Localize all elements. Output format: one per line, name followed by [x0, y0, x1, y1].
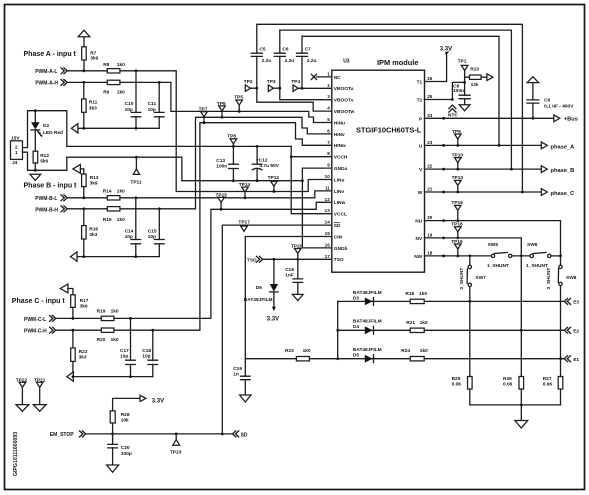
svg-text:LINv: LINv: [334, 189, 345, 195]
svg-text:10p: 10p: [125, 234, 133, 240]
svg-text:9: 9: [327, 163, 330, 168]
NTC annotation: [449, 105, 456, 112]
svg-text:3_SHUNT: 3_SHUNT: [546, 268, 552, 290]
junction R22/ground: [72, 375, 75, 378]
svg-text:D6: D6: [256, 285, 262, 291]
capacitor C8: [459, 95, 470, 99]
svg-text:R9: R9: [103, 89, 109, 95]
input chevron E3: [564, 298, 570, 304]
power arrow 15V phase C: [60, 284, 68, 293]
ground symbol J4: [30, 174, 41, 180]
LED D2: [31, 122, 40, 129]
wire R11: [83, 82, 85, 128]
svg-text:C19: C19: [233, 366, 242, 372]
wire PWM-A-H to HINu pin5: [67, 82, 332, 122]
svg-text:14: 14: [325, 220, 331, 225]
capacitor C7: [297, 53, 308, 56]
resistor R13: [82, 174, 87, 187]
capacitor C12: [256, 145, 259, 148]
svg-text:R14: R14: [103, 189, 112, 195]
svg-text:20: 20: [427, 215, 433, 220]
junction R16/ground: [82, 255, 85, 258]
svg-text:8: 8: [327, 151, 330, 156]
svg-text:R27: R27: [543, 376, 552, 382]
svg-text:E3: E3: [573, 300, 579, 306]
svg-text:Phase B - inpu t: Phase B - inpu t: [24, 182, 78, 189]
resistor R15: [107, 207, 120, 211]
svg-text:PWM-B-L: PWM-B-L: [35, 196, 57, 202]
svg-text:1n: 1n: [233, 371, 239, 377]
junction C18/PWM-C-H: [151, 329, 154, 332]
input chevron E1: [564, 356, 570, 362]
svg-text:1k0: 1k0: [117, 62, 125, 68]
junction C17/PWM-C-L: [129, 317, 132, 320]
svg-text:7: 7: [327, 140, 330, 145]
wire D2 stem: [34, 111, 36, 152]
capacitor C10: [135, 71, 137, 129]
wire P pin24 to +Bus: [425, 117, 554, 119]
svg-text:C7: C7: [305, 47, 311, 53]
diode D6: [273, 259, 275, 307]
ground arrow phase A: [71, 124, 78, 133]
wire CIN pin15: [245, 237, 331, 359]
resistor R24: [410, 357, 424, 361]
svg-text:3k3: 3k3: [79, 355, 87, 361]
svg-text:25: 25: [427, 94, 433, 99]
junction R26/E2: [520, 329, 523, 332]
input chevron E2: [564, 327, 570, 333]
svg-text:C18: C18: [142, 348, 151, 354]
wire EM_STOP to SD: [86, 433, 233, 435]
svg-text:VBOOTv: VBOOTv: [334, 98, 354, 104]
capacitor C9: [532, 83, 534, 119]
svg-text:BAT48JFILM: BAT48JFILM: [244, 297, 273, 303]
wire NW pin18 to SW5: [425, 255, 492, 257]
IPM module U3: [332, 70, 425, 272]
resistor R21: [410, 328, 424, 332]
svg-text:TP17: TP17: [238, 219, 250, 225]
wire R13 bottom: [83, 187, 85, 198]
capacitor C5: [251, 53, 262, 56]
svg-text:3k9: 3k9: [90, 56, 98, 62]
capacitor C20: [112, 434, 114, 465]
svg-text:VCCH: VCCH: [334, 155, 348, 161]
svg-text:R28: R28: [121, 412, 130, 418]
pin1 NC no-connect: [317, 76, 332, 78]
wire C5 bottom to VBOOTw pin4: [257, 56, 332, 111]
junction C15/PWM-B-H: [158, 207, 161, 210]
svg-text:TP12: TP12: [268, 175, 280, 181]
svg-text:NW: NW: [414, 254, 422, 260]
svg-text:100n: 100n: [216, 164, 227, 170]
svg-text:GIPG10111600093: GIPG10111600093: [13, 432, 19, 476]
svg-text:2.2u: 2.2u: [262, 58, 272, 64]
svg-text:4.7u 50V: 4.7u 50V: [259, 163, 279, 169]
svg-text:5k6: 5k6: [40, 159, 48, 165]
svg-text:3k9: 3k9: [90, 181, 98, 187]
svg-text:10k: 10k: [121, 418, 129, 424]
resistor R7: [82, 47, 87, 60]
svg-text:LED Red: LED Red: [43, 130, 63, 136]
svg-text:D4: D4: [353, 324, 359, 330]
svg-text:10p: 10p: [120, 354, 128, 360]
svg-text:24: 24: [427, 113, 433, 118]
svg-text:0.06: 0.06: [543, 382, 553, 388]
switch SW5: [491, 254, 494, 257]
svg-text:LINu: LINu: [334, 177, 345, 183]
diode D3: [365, 298, 373, 306]
wire PWM-B-H to HINv pin6: [67, 117, 332, 209]
ground arrow phase C: [67, 372, 74, 381]
svg-text:2: 2: [327, 83, 330, 88]
svg-text:HINv: HINv: [334, 132, 345, 138]
svg-text:5: 5: [327, 117, 330, 122]
output arrow R10: [487, 74, 493, 81]
svg-text:3k9: 3k9: [80, 303, 88, 309]
svg-text:C11: C11: [148, 101, 157, 107]
svg-text:Phase C - inpu t: Phase C - inpu t: [12, 298, 66, 305]
pin names left: [334, 75, 355, 263]
junction VCCH: [290, 155, 293, 158]
svg-text:1k0: 1k0: [111, 337, 119, 343]
capacitor C16: [297, 259, 299, 294]
power arrow 3.3V EM_STOP: [140, 395, 146, 401]
svg-text:12k: 12k: [471, 82, 479, 88]
svg-text:3.3V: 3.3V: [440, 47, 452, 53]
svg-text:NV: NV: [416, 236, 423, 242]
svg-text:21: 21: [427, 187, 433, 192]
ground symbol shunts: [520, 405, 522, 421]
svg-text:R18: R18: [405, 291, 414, 297]
svg-text:R8: R8: [103, 62, 109, 68]
svg-text:R17: R17: [80, 298, 89, 304]
svg-text:3: 3: [327, 94, 330, 99]
svg-text:0.06: 0.06: [503, 382, 513, 388]
svg-text:10p: 10p: [148, 107, 156, 113]
svg-text:VCCL: VCCL: [334, 212, 347, 218]
wire R7 bottom: [83, 47, 85, 71]
svg-text:2: 2: [15, 144, 18, 150]
power arrow C9: [527, 77, 539, 83]
svg-text:U: U: [419, 143, 423, 149]
pin numbers right: [427, 76, 433, 255]
svg-text:phase_C: phase_C: [551, 191, 575, 197]
svg-text:17: 17: [325, 254, 331, 259]
svg-text:R7: R7: [90, 50, 96, 56]
resistor R9: [107, 80, 120, 84]
svg-text:15: 15: [325, 231, 331, 236]
svg-text:TP23: TP23: [170, 449, 182, 455]
pin names right: [414, 80, 423, 260]
capacitor C18: [152, 330, 154, 376]
svg-text:Phase A - inpu t: Phase A - inpu t: [24, 51, 77, 58]
ground arrow phase B: [71, 252, 78, 261]
svg-text:R23: R23: [285, 348, 294, 354]
svg-text:U3: U3: [343, 59, 350, 65]
svg-text:C6: C6: [282, 47, 288, 53]
svg-text:D2: D2: [43, 123, 49, 129]
output chevron SD: [233, 431, 239, 437]
svg-text:R20: R20: [97, 337, 106, 343]
svg-text:GNDb: GNDb: [334, 246, 348, 252]
svg-text:SW5: SW5: [488, 242, 499, 248]
svg-text:phase_B: phase_B: [551, 168, 575, 174]
wire R7 top: [83, 37, 85, 47]
shunt resistor R26: [520, 256, 522, 405]
svg-text:E2: E2: [573, 329, 579, 335]
junction C16: [296, 258, 299, 261]
svg-text:0.06: 0.06: [452, 382, 462, 388]
svg-text:1k0: 1k0: [303, 348, 311, 354]
wire SW5 to SW6: [512, 255, 530, 257]
svg-text:1k0: 1k0: [117, 89, 125, 95]
svg-text:100n: 100n: [453, 88, 464, 94]
svg-text:PWM-C-H: PWM-C-H: [24, 329, 47, 335]
test point TP23: [175, 433, 178, 436]
junction R27/E1: [559, 357, 562, 360]
junction C14/PWM-B-L: [134, 196, 137, 199]
power arrow 3.3V below D6: [272, 307, 276, 311]
svg-text:16: 16: [325, 242, 331, 247]
svg-text:3k3: 3k3: [89, 232, 97, 238]
svg-text:C13: C13: [216, 158, 225, 164]
junction D6: [273, 258, 276, 261]
svg-text:1k0: 1k0: [117, 189, 125, 195]
svg-text:STGIF10CH60TS-L: STGIF10CH60TS-L: [356, 126, 422, 135]
wire R17 bottom: [72, 307, 74, 318]
svg-text:22: 22: [427, 164, 433, 169]
svg-text:PWM-B-H: PWM-B-H: [35, 208, 58, 214]
shunt resistor R27: [560, 359, 562, 405]
svg-text:TP11: TP11: [130, 179, 142, 185]
svg-text:1k0: 1k0: [111, 309, 119, 315]
svg-text:HINu: HINu: [334, 120, 345, 126]
wire R12 bottom: [34, 163, 36, 170]
svg-text:C9: C9: [544, 97, 550, 103]
capacitor C11: [158, 82, 160, 128]
svg-text:R22: R22: [79, 349, 88, 355]
svg-text:10: 10: [325, 174, 331, 179]
diode D5: [365, 355, 373, 363]
switch SW7: [469, 256, 471, 265]
wire phase A ground rail: [78, 127, 160, 129]
wire GND rail: [182, 180, 303, 182]
junction R11/ground: [82, 127, 85, 130]
resistor R14: [107, 196, 120, 200]
wire E3 row: [338, 300, 565, 302]
junction C9: [532, 117, 535, 120]
svg-text:LINw: LINw: [334, 200, 346, 206]
wire R16: [83, 209, 85, 257]
svg-text:TSO: TSO: [247, 258, 257, 264]
wire phase B ground rail: [77, 256, 159, 258]
wire C6 top to phase B bootstrap: [280, 30, 512, 169]
junction R22/PWM-C-H: [72, 329, 75, 332]
svg-text:PWM-A-L: PWM-A-L: [35, 69, 57, 75]
wire phase C ground rail: [73, 376, 153, 378]
svg-text:NU: NU: [415, 219, 422, 225]
svg-text:R15: R15: [103, 217, 112, 223]
output arrow +Bus: [554, 115, 560, 122]
svg-text:E1: E1: [573, 357, 579, 363]
anode bus CIN: [337, 301, 339, 358]
svg-text:10p: 10p: [148, 234, 156, 240]
svg-text:0,1 uF - 400V: 0,1 uF - 400V: [544, 104, 574, 110]
svg-text:1k0: 1k0: [117, 217, 125, 223]
svg-text:R21: R21: [406, 320, 415, 326]
svg-text:1_SHUNT: 1_SHUNT: [487, 263, 509, 269]
wire C7 bottom to VBOOTu pin2: [301, 56, 303, 88]
capacitor C15: [158, 209, 160, 257]
svg-text:C20: C20: [121, 445, 130, 451]
svg-text:VBOOTw: VBOOTw: [334, 109, 355, 115]
wire R17 top: [68, 289, 73, 295]
wire NU pin20 to SW8: [425, 221, 561, 265]
wire PWM-C-L to LINw pin12: [55, 202, 331, 318]
svg-text:D3: D3: [353, 295, 359, 301]
svg-text:10p: 10p: [125, 107, 133, 113]
junction C10/ground: [135, 127, 138, 130]
resistor R8: [107, 69, 120, 73]
resistor R19: [101, 316, 114, 320]
svg-text:TP1: TP1: [458, 59, 467, 65]
junction R11/PWM-A-H: [82, 81, 85, 84]
junction C11/PWM-A-H: [158, 81, 161, 84]
ground symbol C19: [240, 395, 251, 402]
resistor R10: [465, 76, 487, 78]
output arrow phase_A: [541, 142, 547, 149]
svg-text:26: 26: [427, 76, 433, 81]
svg-text:2.2u: 2.2u: [307, 58, 317, 64]
svg-text:PWM-C-L: PWM-C-L: [24, 317, 46, 323]
svg-text:10p: 10p: [142, 354, 150, 360]
svg-text:18: 18: [427, 250, 433, 255]
svg-text:3_SHUNT: 3_SHUNT: [459, 268, 465, 290]
wire J4 pin1 ground loop: [23, 152, 67, 170]
svg-text:19: 19: [427, 232, 433, 237]
svg-text:6: 6: [327, 128, 330, 133]
junction R28/EM_STOP: [111, 433, 114, 436]
wire TP1 to C8: [464, 71, 466, 96]
wire R22: [72, 330, 74, 376]
svg-text:VBOOTu: VBOOTu: [334, 86, 354, 92]
output arrow phase_B: [541, 166, 547, 173]
diode D4: [365, 326, 373, 334]
svg-text:R10: R10: [470, 66, 479, 72]
svg-text:330p: 330p: [121, 451, 132, 457]
junction R12 ground: [34, 169, 37, 172]
svg-text:BAT48JFILM: BAT48JFILM: [353, 290, 382, 296]
ground symbol C20: [107, 465, 119, 472]
svg-text:SW6: SW6: [527, 242, 538, 248]
svg-text:R13: R13: [90, 175, 99, 181]
svg-text:PWM-A-H: PWM-A-H: [35, 81, 58, 87]
wire PWM-C-H to HINw pin7: [55, 123, 331, 331]
svg-text:J4: J4: [12, 160, 18, 166]
svg-text:3.3V: 3.3V: [152, 398, 164, 404]
svg-text:BAT48JFILM: BAT48JFILM: [353, 347, 382, 353]
svg-text:R11: R11: [89, 100, 98, 106]
junction R17/PWM-C-L: [72, 317, 75, 320]
svg-text:R12: R12: [40, 153, 49, 159]
svg-text:SW8: SW8: [566, 275, 577, 281]
resistor R11: [82, 99, 87, 112]
svg-text:R19: R19: [97, 309, 106, 315]
capacitor C14: [135, 198, 137, 257]
resistor R23: [296, 357, 309, 361]
resistor R22: [71, 348, 76, 361]
svg-text:1: 1: [327, 71, 330, 76]
wire C7 top to phase A bootstrap: [302, 36, 499, 145]
shunt resistor R25: [469, 301, 471, 405]
wire GNDa pin9 to GNDb pin16: [302, 168, 331, 248]
switch SW6: [530, 254, 533, 257]
junction R16/PWM-B-H: [82, 207, 85, 210]
svg-text:23: 23: [427, 140, 433, 145]
svg-text:1nF: 1nF: [285, 273, 294, 279]
wire T1 pin26 to 3.3V: [425, 55, 447, 82]
junction T2 tap: [463, 81, 466, 84]
wire V pin22 phase_B: [425, 168, 542, 170]
svg-text:2.2u: 2.2u: [285, 58, 295, 64]
svg-text:T2: T2: [417, 98, 423, 104]
svg-text:T1: T1: [417, 80, 423, 86]
resistor R16: [82, 226, 87, 239]
svg-text:+C12: +C12: [256, 158, 268, 164]
svg-text:C16: C16: [285, 267, 294, 273]
svg-text:GNDa: GNDa: [334, 166, 348, 172]
svg-text:13: 13: [325, 208, 331, 213]
wire E2 row: [338, 329, 565, 331]
power arrow 15V phase B: [73, 165, 81, 174]
wire SD pin14 loop to EM_STOP: [222, 225, 331, 434]
svg-text:SD: SD: [241, 432, 248, 438]
svg-text:R16: R16: [89, 226, 98, 232]
svg-text:TSO: TSO: [334, 257, 344, 263]
svg-text:C14: C14: [125, 228, 134, 234]
resistor R18: [410, 299, 424, 303]
svg-text:1k0: 1k0: [419, 291, 427, 297]
wire W pin21 phase_C: [425, 191, 542, 193]
junction R13/PWM-B-L: [82, 196, 85, 199]
svg-text:1k0: 1k0: [420, 320, 428, 326]
ground symbol C8: [459, 105, 470, 111]
svg-text:4: 4: [327, 106, 330, 111]
ground symbol C16: [292, 294, 303, 300]
wire NV pin19 to R26: [425, 238, 522, 256]
svg-text:C15: C15: [148, 228, 157, 234]
wire E1 row: [338, 358, 565, 360]
svg-text:1_SHUNT: 1_SHUNT: [526, 263, 548, 269]
junction C14/ground: [134, 255, 137, 258]
wire C6 bottom to VBOOTv pin3: [280, 56, 332, 99]
wire shunt ground rail: [470, 404, 561, 406]
wire PWM-B-L to LINv pin11: [67, 191, 332, 198]
wire R13 top: [80, 169, 83, 174]
capacitor C13: [232, 146, 234, 180]
svg-text:C17: C17: [120, 348, 129, 354]
junction GND rail: [301, 179, 304, 182]
svg-text:C5: C5: [259, 47, 265, 53]
svg-text:3k3: 3k3: [89, 105, 97, 111]
wire VCC to VCCH pin8 and VCCL pin13: [291, 146, 332, 213]
wire U pin23 phase_A: [425, 144, 542, 146]
svg-text:W: W: [418, 190, 423, 196]
svg-text:3.3V: 3.3V: [267, 316, 279, 322]
svg-text:D5: D5: [353, 353, 359, 359]
switch SW8: [559, 265, 562, 268]
svg-text:CIN: CIN: [334, 234, 343, 240]
